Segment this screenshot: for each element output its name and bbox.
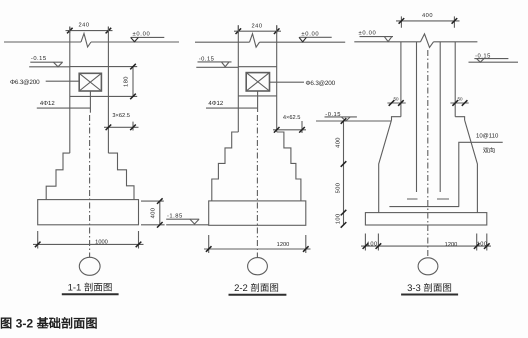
svg-text:100: 100 xyxy=(367,241,378,247)
bottom dimension 1000 S1 xyxy=(38,231,139,249)
ring beam top line S2 xyxy=(238,66,276,68)
svg-text:180: 180 xyxy=(124,76,130,87)
svg-text:3-3 剖面图: 3-3 剖面图 xyxy=(407,282,452,294)
svg-text:Φ6.3@200: Φ6.3@200 xyxy=(10,79,40,86)
svg-text:500: 500 xyxy=(336,183,342,194)
svg-text:4Φ12: 4Φ12 xyxy=(208,100,223,107)
svg-text:±0.00: ±0.00 xyxy=(133,31,151,38)
ring beam top line S1 xyxy=(70,66,137,68)
dimension 180 (S1) xyxy=(132,67,134,97)
tick S1-240 right xyxy=(106,28,112,34)
wall left line S2 xyxy=(237,25,239,132)
break symbol S3 xyxy=(421,34,434,48)
dimension 240 (S1) dimension line xyxy=(66,30,113,32)
cup ledge left S3 xyxy=(392,117,401,120)
svg-text:-1.85: -1.85 xyxy=(167,213,183,220)
column outer right S3 xyxy=(454,42,456,117)
centerline S3 xyxy=(427,50,429,258)
footing base S3 xyxy=(365,213,486,225)
centerline S2 xyxy=(256,115,258,258)
svg-text:4Φ12: 4Φ12 xyxy=(40,100,55,107)
section bubble S3 xyxy=(418,258,438,275)
steps left S1 xyxy=(46,153,70,200)
leader 10@110 S3 xyxy=(459,142,503,206)
column bar left S3 xyxy=(416,42,418,192)
wall right line S1 xyxy=(107,27,109,154)
svg-text:1200: 1200 xyxy=(277,242,290,248)
break symbol S2 xyxy=(250,34,260,48)
svg-text:4×62.5: 4×62.5 xyxy=(283,115,301,121)
svg-text:1200: 1200 xyxy=(445,242,458,248)
svg-text:2-2 剖面图: 2-2 剖面图 xyxy=(234,282,279,294)
svg-text:-0.15: -0.15 xyxy=(31,55,47,62)
svg-text:1000: 1000 xyxy=(95,240,108,246)
svg-text:图 3-2 基础剖面图: 图 3-2 基础剖面图 xyxy=(0,316,98,330)
svg-text:400: 400 xyxy=(151,208,157,219)
svg-text:±0.00: ±0.00 xyxy=(301,30,319,37)
ring beam box S2 xyxy=(246,73,269,91)
ground line S2 xyxy=(195,41,345,43)
centerline S1 xyxy=(89,115,91,257)
rebar line S1 xyxy=(89,91,91,113)
ring beam box S1 xyxy=(79,73,101,91)
rebar line S2 xyxy=(257,91,259,112)
column bar right S3 xyxy=(439,42,441,192)
section bubble S1 xyxy=(79,257,100,275)
bar hooks S3 xyxy=(407,198,449,200)
footing base S1 xyxy=(38,200,139,225)
svg-text:400: 400 xyxy=(422,13,433,19)
svg-text:100: 100 xyxy=(477,241,488,247)
break symbol S1 xyxy=(81,34,91,48)
column outer left S3 xyxy=(400,42,402,117)
tick S1-240 left xyxy=(67,28,73,34)
dimension 240 (S2) xyxy=(238,25,276,33)
ring beam bottom line S1 xyxy=(70,95,137,97)
svg-text:240: 240 xyxy=(79,23,90,29)
steps left S2 xyxy=(212,132,239,201)
ground line S3 xyxy=(354,41,477,43)
footing slope left S3 xyxy=(379,120,392,213)
bottom dimensions 100/1200/100 S3 xyxy=(365,234,486,251)
wall right line S2 xyxy=(276,25,278,132)
svg-text:Φ6.3@200: Φ6.3@200 xyxy=(306,80,336,87)
label Φ6.3@200 S2 xyxy=(270,81,305,83)
ground line S1 xyxy=(4,41,179,43)
bottom mesh bar S3 xyxy=(389,206,459,208)
svg-text:240: 240 xyxy=(252,24,263,30)
footing slope right S3 xyxy=(465,120,478,213)
bottom dimension 1200 S2 xyxy=(209,235,306,253)
svg-text:1-1 剖面图: 1-1 剖面图 xyxy=(68,282,113,294)
steps right S1 xyxy=(108,153,134,200)
svg-text:100: 100 xyxy=(336,213,342,224)
section bubble S2 xyxy=(248,258,268,275)
dimension 400 (S3) xyxy=(401,16,454,27)
dimension 400 base S1 xyxy=(141,201,165,225)
svg-text:3×62.5: 3×62.5 xyxy=(112,113,130,119)
steps right S2 xyxy=(277,132,301,201)
svg-text:双向: 双向 xyxy=(483,147,495,155)
dimension 240 (S1) extension lines xyxy=(70,27,109,34)
footing base S2 xyxy=(209,201,306,225)
cup ledge right S3 xyxy=(455,117,464,120)
vertical dim chain S3 xyxy=(343,121,345,225)
wall left line S1 xyxy=(69,27,71,154)
svg-text:400: 400 xyxy=(336,137,342,148)
ring beam bottom line S2 xyxy=(238,95,276,97)
svg-text:10@110: 10@110 xyxy=(476,133,499,140)
svg-text:±0.00: ±0.00 xyxy=(359,30,377,37)
